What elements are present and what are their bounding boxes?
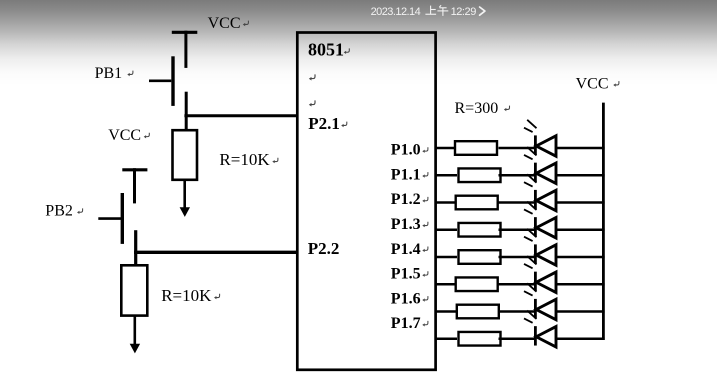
svg-text:P1.4: P1.4	[391, 241, 421, 258]
svg-text:P2.1: P2.1	[308, 114, 340, 133]
svg-text:2023.12.14: 2023.12.14	[371, 6, 421, 18]
svg-text:PB2: PB2	[45, 203, 73, 220]
svg-text:12:29: 12:29	[451, 6, 477, 18]
svg-text:P1.5: P1.5	[391, 266, 421, 283]
svg-text:P1.2: P1.2	[391, 191, 421, 208]
svg-text:R=10K: R=10K	[219, 150, 270, 169]
svg-text:P1.6: P1.6	[391, 290, 421, 307]
svg-text:P1.0: P1.0	[391, 142, 421, 159]
svg-text:P1.1: P1.1	[391, 166, 421, 183]
svg-text:VCC: VCC	[108, 127, 141, 144]
svg-text:P1.7: P1.7	[391, 315, 421, 332]
svg-text:R=10K: R=10K	[161, 286, 212, 305]
svg-text:8051: 8051	[308, 40, 344, 60]
svg-text:P2.2: P2.2	[308, 239, 340, 258]
svg-text:PB1: PB1	[95, 65, 123, 82]
svg-text:P1.3: P1.3	[391, 216, 421, 233]
svg-text:VCC: VCC	[576, 75, 609, 92]
svg-text:R=300: R=300	[455, 100, 499, 117]
svg-text:VCC: VCC	[208, 15, 241, 32]
